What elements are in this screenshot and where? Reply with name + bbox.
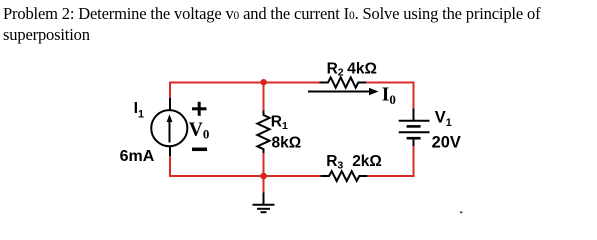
wire right: top-right corner to battery positive lead [413, 82, 415, 110]
wire right: battery negative lead to bottom-right corner [413, 146, 415, 178]
polarity plus for V0 [192, 102, 207, 116]
resistor R3 (horizontal zigzag in bottom wire) [321, 171, 368, 181]
polarity minus for V0 [192, 148, 207, 152]
wire top: R2 to top-right corner [366, 82, 415, 84]
svg-text:20V: 20V [432, 134, 461, 152]
resistor R1 (vertical zigzag) [257, 111, 269, 154]
svg-text:I0: I0 [382, 84, 396, 107]
battery V1 (two-cell symbol) [399, 109, 430, 147]
svg-text:R3: R3 [326, 153, 343, 171]
svg-text:2kΩ: 2kΩ [352, 153, 382, 170]
wire: node B down to ground [263, 176, 265, 194]
ground [253, 193, 275, 213]
wire top: node A to R2 [264, 82, 321, 84]
node A (junction dot, top of R1) [260, 79, 266, 85]
wire: R1 branch bottom (R1 down to node B) [263, 153, 265, 177]
node B (junction dot, bottom of R1) [260, 173, 267, 180]
svg-text:4kΩ: 4kΩ [347, 60, 377, 77]
wire top: current source to node A [169, 82, 264, 84]
stray period mark [460, 212, 462, 214]
svg-text:R2: R2 [327, 60, 344, 78]
svg-text:V0: V0 [189, 120, 210, 142]
svg-text:V1: V1 [435, 108, 452, 128]
resistor R2 (horizontal zigzag in top wire) [320, 77, 367, 87]
wire left: bottom-left corner up to current source [169, 156, 171, 178]
wire: R1 branch top (node A down to R1) [263, 83, 265, 112]
wire bottom: node B to bottom-left corner [169, 175, 264, 177]
wire left: current source up to top-left corner [169, 82, 171, 99]
wire bottom: R3 to node B [264, 175, 322, 177]
svg-text:I1: I1 [134, 100, 144, 121]
svg-text:R1: R1 [271, 114, 288, 132]
svg-text:8kΩ: 8kΩ [272, 135, 302, 152]
svg-text:6mA: 6mA [120, 148, 155, 165]
current arrow I0 [308, 91, 372, 93]
wire bottom: bottom-right corner to R3 [367, 175, 415, 177]
current source I1 (circle with upward arrow) [151, 98, 187, 156]
